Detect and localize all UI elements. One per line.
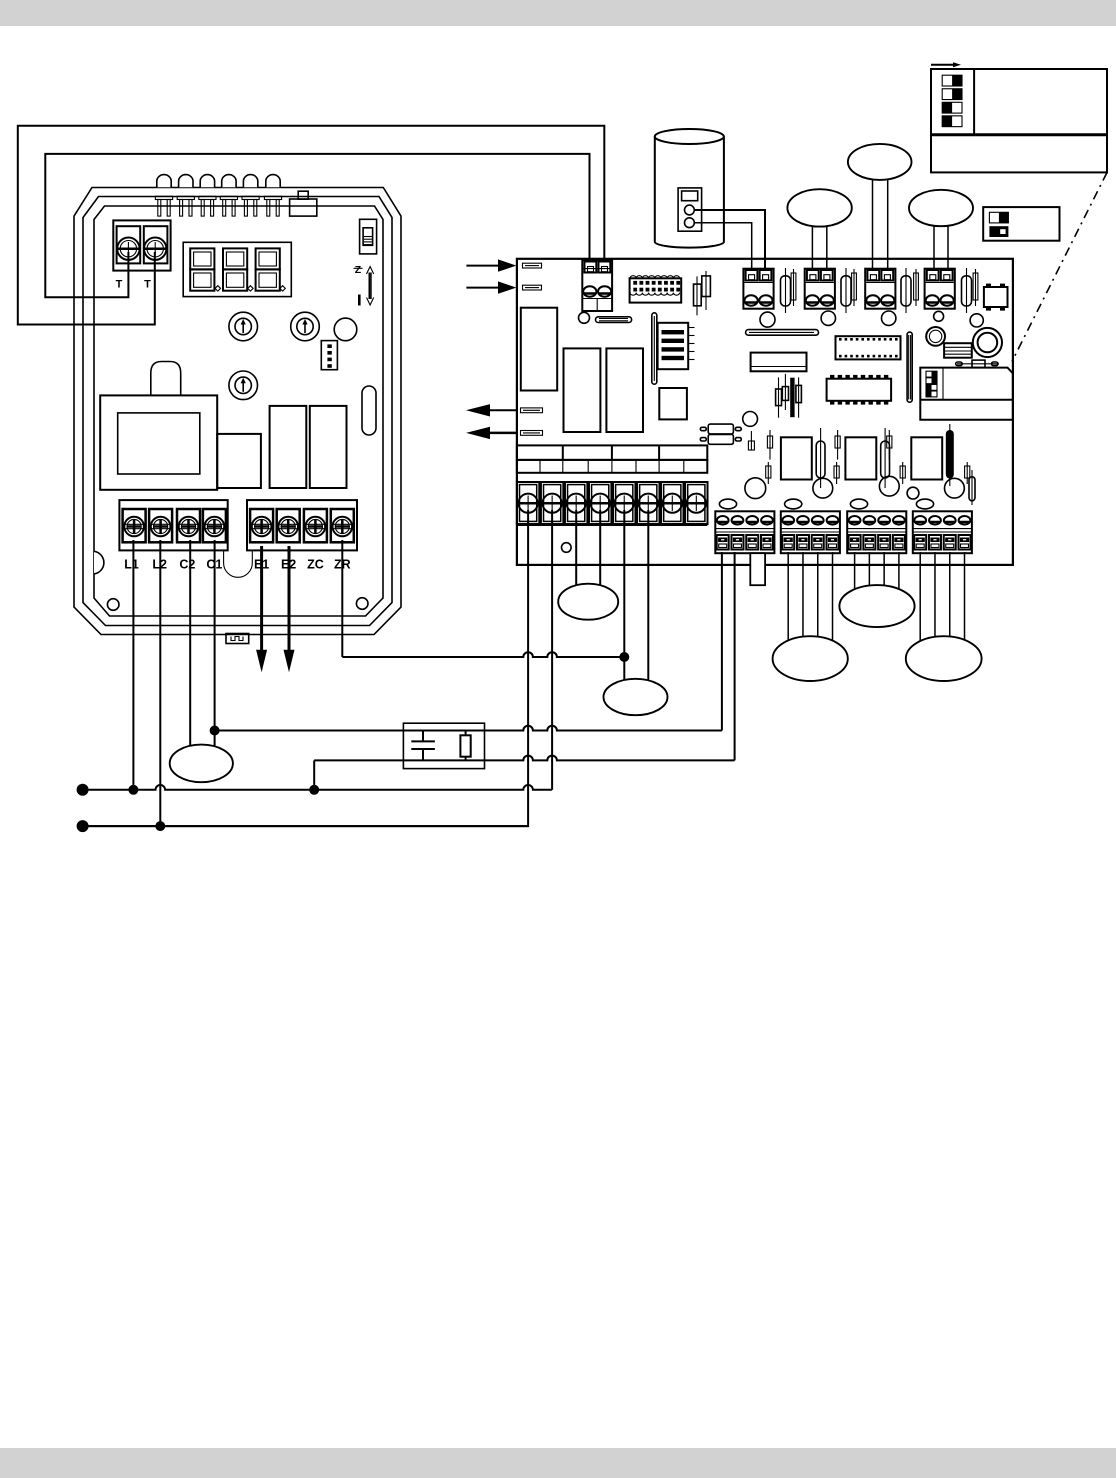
thermostat output terminal [203, 509, 226, 542]
dash-dot leader line [1012, 173, 1107, 362]
relay tall 2 [310, 406, 347, 488]
LED 4 [222, 175, 236, 188]
wire ZR [342, 652, 624, 657]
RC top wire [215, 726, 722, 731]
output arrow [490, 432, 516, 435]
wires block3 to oval [854, 552, 856, 612]
terminal group E1 E2 ZC ZR [247, 500, 357, 550]
mounting hole [813, 478, 833, 498]
terminal group L1 L2 C2 C1 [119, 500, 227, 550]
diode [845, 268, 847, 313]
output arrow [490, 409, 516, 411]
RC bottom wire [314, 756, 734, 761]
thermostat output terminal [123, 509, 146, 542]
wires oval C to block5 [933, 212, 935, 268]
callout oval C [909, 190, 973, 226]
screw terminals x8 [517, 482, 539, 524]
mounting hole left [107, 599, 119, 611]
4-pin connector [321, 341, 337, 370]
mounting hole [907, 487, 919, 499]
7-seg digit [190, 248, 214, 269]
callout oval (block4) [906, 636, 982, 681]
pin header [975, 269, 977, 306]
strip bottom line [517, 524, 707, 527]
legend box [931, 69, 1107, 172]
component rect center [659, 388, 687, 419]
PCB control board outline [517, 259, 1013, 565]
junction terminal [77, 820, 89, 832]
thermostat output terminal [149, 509, 172, 542]
electrolytic cap side [652, 313, 657, 384]
toroid large [973, 328, 1002, 357]
horizontal relay small [751, 353, 807, 372]
4-pos terminal block [715, 511, 774, 553]
junction RC tap [309, 785, 319, 795]
screw terminal strip rows [517, 445, 707, 460]
jumper pad [523, 263, 542, 268]
bottom bus row B [83, 825, 528, 827]
thermostat output terminal [250, 509, 273, 542]
small oval marker [785, 499, 802, 509]
pin header [793, 269, 795, 306]
LED 6 [266, 175, 280, 188]
rotary potentiometer [229, 371, 258, 400]
SMD component with tabs [984, 287, 1008, 307]
callout oval B [848, 144, 912, 180]
wires block2 to oval [787, 552, 789, 665]
wire heater to block2 left [694, 223, 751, 268]
wire T1 loop inner [45, 154, 589, 297]
relay box small [217, 434, 261, 488]
pin header pair [696, 276, 698, 315]
bold arrow output [288, 546, 291, 651]
pin [836, 462, 838, 484]
junction L1 [128, 785, 138, 795]
junction terminal [77, 784, 89, 796]
pin header [853, 269, 855, 306]
wire C1 [214, 540, 216, 765]
wire T2 loop outer [18, 126, 605, 325]
relay tall 1 [270, 406, 307, 488]
pin [767, 462, 769, 484]
mounting hole [945, 478, 965, 498]
diode [905, 268, 907, 313]
capacitor C [422, 731, 424, 742]
slot pill [596, 317, 632, 323]
triac [781, 437, 812, 479]
thermostat case middle border [83, 197, 392, 626]
inner border left notch [94, 551, 104, 574]
decimal point [280, 286, 285, 291]
thermostat output terminal [277, 509, 300, 542]
4-pos terminal block [781, 511, 840, 553]
slider switch [360, 219, 377, 254]
toroid small [926, 327, 945, 346]
up-down arrow [368, 273, 370, 300]
pin [888, 430, 890, 460]
water heater cylinder [655, 137, 724, 248]
DIP socket strip [630, 278, 682, 302]
DIP row 2 [989, 226, 1008, 237]
input arrow [466, 265, 498, 267]
thermostat output terminal [304, 509, 327, 542]
svg-text:ZC: ZC [307, 558, 324, 572]
PCB terminal block [865, 269, 895, 309]
heater control panel [678, 188, 702, 231]
LED 5 [243, 175, 257, 188]
relay mid 2 [606, 348, 643, 432]
DIP row 1 [989, 212, 1008, 223]
DIP switch box on PCB [920, 368, 1013, 420]
mounting hole [879, 476, 899, 496]
jumper pad [521, 408, 543, 413]
wire from screw4 [599, 510, 601, 605]
7-segment display frame [183, 242, 291, 296]
4-pos terminal block [913, 511, 972, 553]
vertical resistor black [946, 430, 954, 479]
thermostat output terminal [331, 509, 354, 542]
small DIP box [983, 207, 1059, 241]
relay left tall [521, 308, 557, 391]
arrow above legend [931, 64, 955, 66]
wires oval B to block4 [872, 166, 874, 268]
DIP switch row [942, 75, 962, 86]
DIP switch row [942, 89, 962, 100]
diode [785, 268, 787, 313]
junction ZR-screw5 [619, 652, 629, 662]
vertical resistor [820, 428, 822, 488]
terminal screw [144, 238, 166, 260]
wire L2 [159, 540, 161, 826]
axial resistor [957, 363, 999, 365]
IC1 DIP [836, 336, 901, 359]
decimal point [248, 286, 253, 291]
4-pos terminal block [847, 511, 906, 553]
DIP switch row [942, 102, 962, 113]
wire from screw6 to oval [647, 510, 649, 700]
pin [750, 431, 752, 450]
mounting holes [579, 312, 590, 323]
wire from screw2 down to row A [551, 510, 553, 790]
input arrow [466, 287, 498, 289]
callout oval (block3) [839, 585, 914, 627]
svg-text:C2: C2 [179, 558, 195, 572]
terminal screw [117, 238, 139, 260]
LED 3 [200, 175, 214, 188]
transistor cluster [778, 377, 780, 417]
relay box large [100, 395, 217, 489]
callout oval (screws 5-6) [604, 679, 668, 715]
top gray bar [0, 0, 1116, 26]
thermostat case outer border [74, 188, 401, 635]
pin header [915, 269, 917, 306]
mounting hole [743, 412, 758, 427]
wires oval A to block3 [811, 212, 813, 268]
thermostat output terminal [177, 509, 200, 542]
LED 1 [157, 175, 171, 188]
twin axial component [708, 424, 733, 434]
long pill resistor [746, 330, 819, 336]
junction C1 [210, 726, 220, 736]
thermostat case inner border [94, 206, 383, 616]
diode [966, 268, 968, 313]
rotary potentiometer [291, 312, 320, 341]
small oval marker [850, 499, 867, 509]
wire heater to block2 right [694, 210, 765, 268]
bold arrow output [260, 546, 263, 651]
RC snubber module [403, 723, 484, 768]
wire from screw5 to junction [623, 510, 625, 700]
PCB terminal block [925, 269, 955, 309]
thermostat supply terminal block [113, 220, 170, 270]
callout oval (C1 C2) [170, 745, 233, 783]
7-seg digit [223, 248, 247, 269]
PCB terminal block 1 [582, 260, 612, 311]
decimal point [215, 286, 220, 291]
pin [837, 430, 839, 460]
wire from screw3 [575, 510, 577, 605]
callout oval (block2) [773, 636, 848, 681]
svg-text:L1: L1 [124, 558, 139, 572]
wire C2 [189, 540, 191, 765]
junction L2 [155, 821, 165, 831]
svg-text:Z: Z [355, 264, 362, 276]
7-seg digit [256, 248, 280, 269]
LED 2 [179, 175, 193, 188]
vertical resistor [884, 428, 886, 488]
small oval marker [916, 499, 933, 509]
triac [845, 437, 876, 479]
pin [966, 462, 968, 484]
jumper loop below block1 [750, 553, 765, 585]
relay mid 1 [564, 348, 601, 432]
wire from screw1 down to row B [83, 510, 528, 826]
bottom gray bar [0, 1448, 1116, 1478]
buzzer [151, 362, 181, 396]
relay small right [944, 343, 972, 358]
bottom bus row A [83, 785, 552, 790]
svg-text:T: T [116, 279, 123, 291]
IC2 DIP [827, 379, 892, 401]
callout oval A [787, 189, 851, 226]
wires block4 to oval [919, 552, 921, 665]
I symbol [358, 295, 361, 306]
svg-text:T: T [144, 279, 151, 291]
mounting hole [745, 478, 766, 499]
bottom connector tab [226, 634, 249, 644]
hole in strip area [562, 543, 572, 553]
vertical pill long [907, 332, 912, 402]
small oval marker [719, 499, 736, 509]
center semicircle notch [224, 551, 253, 578]
jumper pad [521, 431, 543, 436]
PCB terminal block [805, 269, 835, 309]
mounting hole right [356, 598, 368, 610]
rotary potentiometer [229, 312, 258, 341]
plain circle component [334, 318, 357, 341]
pin [769, 430, 771, 460]
pin [902, 462, 904, 484]
callout oval (screws 3-4) [558, 584, 618, 620]
optocoupler block [658, 323, 689, 369]
inner border right slot [362, 386, 376, 435]
DIP switch row [942, 116, 962, 127]
wire L1 [132, 540, 134, 790]
resistor R [460, 735, 470, 756]
vertical pill [969, 477, 975, 501]
jumper pad [523, 285, 542, 290]
IR window block top right [298, 191, 308, 199]
PCB terminal block [743, 269, 773, 309]
triac [911, 437, 942, 479]
